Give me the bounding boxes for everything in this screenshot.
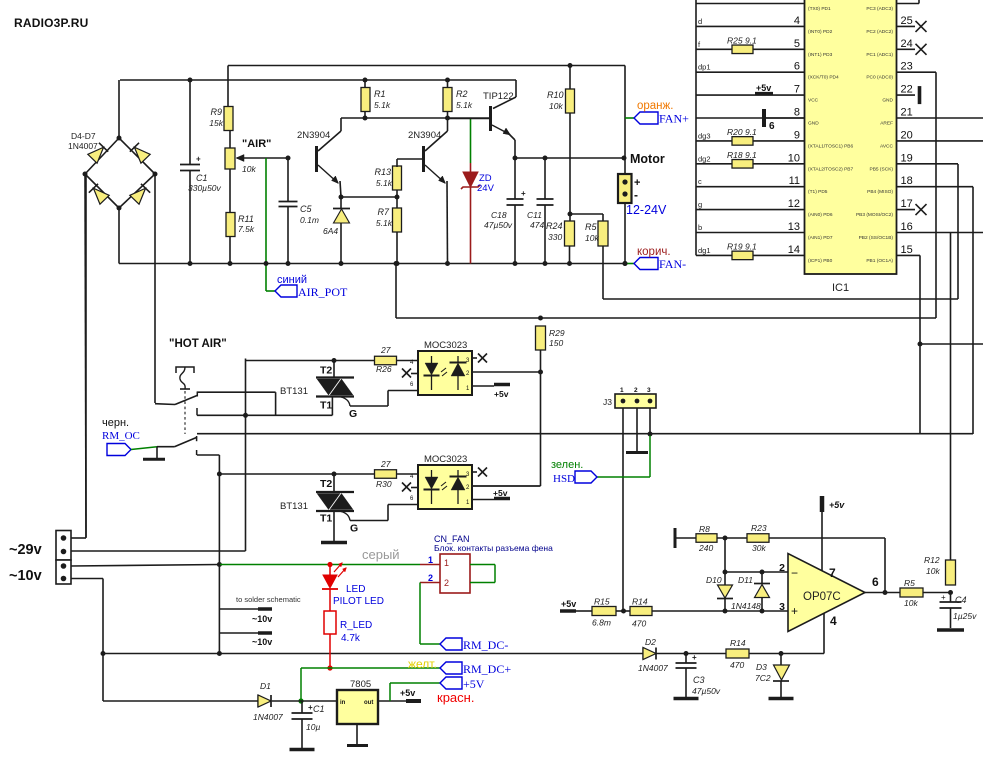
svg-text:серый: серый <box>362 547 400 562</box>
svg-text:470: 470 <box>632 619 646 629</box>
svg-text:6: 6 <box>872 575 879 589</box>
svg-text:+5V: +5V <box>463 677 485 691</box>
svg-text:7.5k: 7.5k <box>238 224 255 234</box>
svg-text:~10v: ~10v <box>9 568 42 584</box>
svg-text:(XTAL1/TOSC1) PB6: (XTAL1/TOSC1) PB6 <box>808 143 853 149</box>
svg-text:RADIO3P.RU: RADIO3P.RU <box>14 16 88 30</box>
svg-text:G: G <box>350 523 358 535</box>
svg-text:G: G <box>349 408 357 420</box>
svg-text:27: 27 <box>380 459 391 469</box>
svg-text:(INT1) PD3: (INT1) PD3 <box>808 52 833 58</box>
svg-text:0.1m: 0.1m <box>300 215 319 225</box>
svg-text:GND: GND <box>808 121 819 127</box>
svg-text:R19 9.1: R19 9.1 <box>727 241 757 251</box>
svg-text:out: out <box>364 700 373 706</box>
svg-text:(TX0) PD1: (TX0) PD1 <box>808 6 831 12</box>
svg-text:c: c <box>698 177 702 186</box>
svg-text:+5v: +5v <box>400 688 415 698</box>
svg-text:20: 20 <box>901 129 913 141</box>
svg-text:R14: R14 <box>632 597 648 607</box>
svg-text:C18: C18 <box>491 210 507 220</box>
svg-text:PB3 (MOSI/OC2): PB3 (MOSI/OC2) <box>856 212 893 218</box>
svg-text:желт.: желт. <box>408 657 437 671</box>
svg-text:C4: C4 <box>955 595 967 605</box>
svg-text:47µ50v: 47µ50v <box>692 686 721 696</box>
svg-text:R_LED: R_LED <box>340 620 372 631</box>
svg-text:14: 14 <box>788 244 800 256</box>
svg-text:19: 19 <box>901 152 913 164</box>
svg-text:6A4: 6A4 <box>323 226 338 236</box>
svg-text:dp1: dp1 <box>698 63 711 72</box>
svg-text:11: 11 <box>789 175 800 187</box>
svg-text:PB2 (SS/OC1B): PB2 (SS/OC1B) <box>859 235 894 241</box>
svg-text:MOC3023: MOC3023 <box>424 340 467 351</box>
svg-text:красн.: красн. <box>437 690 474 705</box>
svg-text:(AIN0) PD6: (AIN0) PD6 <box>808 212 833 218</box>
svg-text:PC0 (ADC0): PC0 (ADC0) <box>866 75 893 81</box>
svg-text:24V: 24V <box>477 183 495 194</box>
svg-text:C5: C5 <box>300 204 312 214</box>
svg-text:in: in <box>340 700 346 706</box>
svg-text:AREF: AREF <box>880 121 893 127</box>
svg-text:C3: C3 <box>693 675 705 685</box>
svg-text:21: 21 <box>901 107 913 119</box>
svg-text:T1: T1 <box>320 400 332 412</box>
svg-text:R9: R9 <box>210 107 222 117</box>
svg-text:AVCC: AVCC <box>880 143 894 149</box>
svg-text:25: 25 <box>901 15 913 27</box>
svg-text:330: 330 <box>548 232 562 242</box>
svg-text:10k: 10k <box>242 164 256 174</box>
svg-text:(XCK/T0) PD4: (XCK/T0) PD4 <box>808 75 839 81</box>
svg-text:240: 240 <box>698 543 713 553</box>
svg-text:OP07C: OP07C <box>803 591 841 603</box>
svg-text:1: 1 <box>620 387 624 394</box>
svg-text:Блок. контакты разъема фена: Блок. контакты разъема фена <box>434 543 553 553</box>
svg-text:7C2: 7C2 <box>755 673 771 683</box>
svg-text:dg2: dg2 <box>698 154 711 163</box>
svg-text:синий: синий <box>277 274 307 286</box>
svg-text:12-24V: 12-24V <box>626 203 667 217</box>
svg-text:Motor: Motor <box>630 152 665 166</box>
svg-text:+5v: +5v <box>494 389 509 399</box>
svg-text:зелен.: зелен. <box>551 459 583 471</box>
svg-text:PC1 (ADC1): PC1 (ADC1) <box>866 52 893 58</box>
svg-text:C1: C1 <box>196 173 208 183</box>
svg-text:+: + <box>692 653 697 662</box>
svg-text:(ICP1) PB0: (ICP1) PB0 <box>808 258 833 264</box>
svg-text:13: 13 <box>788 221 800 233</box>
svg-text:(T1) PD5: (T1) PD5 <box>808 189 828 195</box>
svg-text:15: 15 <box>901 244 913 256</box>
svg-text:to solder schematic: to solder schematic <box>236 595 301 604</box>
svg-text:1N4007: 1N4007 <box>638 663 668 673</box>
svg-text:PB5 (SCK): PB5 (SCK) <box>870 166 894 172</box>
svg-text:RM_OC: RM_OC <box>102 430 140 442</box>
svg-text:5.1k: 5.1k <box>374 100 391 110</box>
svg-text:IC1: IC1 <box>832 282 849 294</box>
svg-text:-: - <box>634 188 638 202</box>
svg-text:1µ25v: 1µ25v <box>953 611 977 621</box>
svg-text:24: 24 <box>901 38 913 50</box>
svg-text:7805: 7805 <box>350 679 371 690</box>
svg-text:T2: T2 <box>320 365 332 377</box>
svg-text:2N3904: 2N3904 <box>408 130 441 141</box>
svg-text:C1: C1 <box>313 704 325 714</box>
svg-text:6.8m: 6.8m <box>592 618 611 628</box>
svg-text:HSD: HSD <box>553 473 575 485</box>
svg-text:T2: T2 <box>320 478 332 490</box>
svg-text:3: 3 <box>779 601 785 613</box>
svg-text:b: b <box>698 223 702 232</box>
svg-text:4.7k: 4.7k <box>341 633 361 644</box>
svg-text:R14: R14 <box>730 638 746 648</box>
svg-text:10k: 10k <box>549 101 563 111</box>
svg-text:30k: 30k <box>752 543 766 553</box>
svg-text:D2: D2 <box>645 637 656 647</box>
svg-text:1N4007: 1N4007 <box>253 712 283 722</box>
svg-text:черн.: черн. <box>102 417 129 429</box>
svg-text:9: 9 <box>794 129 800 141</box>
svg-text:16: 16 <box>901 221 913 233</box>
svg-text:R18 9.1: R18 9.1 <box>727 150 757 160</box>
svg-text:+: + <box>941 593 946 602</box>
svg-text:BT131: BT131 <box>280 386 308 397</box>
svg-text:2N3904: 2N3904 <box>297 130 330 141</box>
svg-text:R8: R8 <box>699 524 710 534</box>
svg-text:1: 1 <box>428 555 433 565</box>
svg-text:~10v: ~10v <box>252 637 272 647</box>
svg-text:D4-D7: D4-D7 <box>71 131 96 141</box>
svg-text:R15: R15 <box>594 597 610 607</box>
svg-text:RM_DC+: RM_DC+ <box>463 662 511 676</box>
svg-text:5: 5 <box>794 38 800 50</box>
svg-text:R10: R10 <box>547 90 564 100</box>
svg-text:R5: R5 <box>585 222 597 232</box>
svg-text:5.1k: 5.1k <box>456 100 473 110</box>
svg-text:10k: 10k <box>904 598 918 608</box>
svg-text:474: 474 <box>530 220 544 230</box>
svg-text:R13: R13 <box>374 167 391 177</box>
svg-text:23: 23 <box>901 61 913 73</box>
svg-text:BT131: BT131 <box>280 501 308 512</box>
svg-text:10k: 10k <box>926 566 940 576</box>
svg-text:R7: R7 <box>377 207 389 217</box>
svg-text:+: + <box>791 604 798 618</box>
svg-text:PC2 (ADC2): PC2 (ADC2) <box>866 29 893 35</box>
svg-text:R20 9.1: R20 9.1 <box>727 127 757 137</box>
svg-text:47µ50v: 47µ50v <box>484 220 513 230</box>
svg-text:PILOT LED: PILOT LED <box>333 596 384 607</box>
svg-text:+5v: +5v <box>756 83 771 93</box>
svg-text:2: 2 <box>444 578 449 588</box>
svg-text:g: g <box>698 200 702 209</box>
svg-text:6: 6 <box>794 61 800 73</box>
svg-text:GND: GND <box>882 98 893 104</box>
svg-text:C11: C11 <box>527 210 542 220</box>
svg-text:330µ50v: 330µ50v <box>188 183 222 193</box>
svg-text:−: − <box>791 566 798 580</box>
svg-text:(XTAL2/TOSC2) PB7: (XTAL2/TOSC2) PB7 <box>808 166 853 172</box>
svg-text:1N4148: 1N4148 <box>731 601 761 611</box>
svg-text:R24: R24 <box>546 221 563 231</box>
svg-text:оранж.: оранж. <box>637 100 673 112</box>
svg-text:2: 2 <box>779 562 785 574</box>
svg-text:R2: R2 <box>456 89 468 99</box>
svg-text:(INT0) PD2: (INT0) PD2 <box>808 29 833 35</box>
svg-text:10: 10 <box>788 152 800 164</box>
svg-text:PB1 (OC1A): PB1 (OC1A) <box>866 258 893 264</box>
svg-text:15k: 15k <box>209 118 223 128</box>
svg-text:корич.: корич. <box>637 246 671 258</box>
svg-text:"AIR": "AIR" <box>242 138 271 150</box>
svg-text:R1: R1 <box>374 89 386 99</box>
svg-text:R11: R11 <box>238 214 254 224</box>
svg-text:470: 470 <box>730 660 744 670</box>
svg-text:3: 3 <box>647 387 651 394</box>
svg-text:VCC: VCC <box>808 98 819 104</box>
svg-text:J3: J3 <box>603 397 612 407</box>
svg-text:+5v: +5v <box>493 488 508 498</box>
svg-text:FAN-: FAN- <box>659 257 686 271</box>
svg-text:+: + <box>196 155 201 164</box>
svg-text:D10: D10 <box>706 575 722 585</box>
svg-text:10k: 10k <box>585 233 599 243</box>
svg-text:dg1: dg1 <box>698 246 711 255</box>
svg-text:1: 1 <box>444 558 449 568</box>
svg-text:D3: D3 <box>756 662 767 672</box>
svg-text:AIR_POT: AIR_POT <box>298 285 348 299</box>
svg-text:18: 18 <box>901 175 913 187</box>
svg-text:150: 150 <box>549 338 563 348</box>
svg-text:(AIN1) PD7: (AIN1) PD7 <box>808 235 833 241</box>
svg-text:dg3: dg3 <box>698 131 711 140</box>
svg-text:~29v: ~29v <box>9 542 42 558</box>
svg-text:RM_DC-: RM_DC- <box>463 638 508 652</box>
svg-text:~10v: ~10v <box>252 614 272 624</box>
svg-text:T1: T1 <box>320 513 332 525</box>
svg-text:PC3 (ADC3): PC3 (ADC3) <box>866 6 893 12</box>
svg-text:5.1k: 5.1k <box>376 178 393 188</box>
svg-text:2: 2 <box>634 387 638 394</box>
svg-text:FAN+: FAN+ <box>659 112 689 126</box>
svg-text:4: 4 <box>794 15 800 27</box>
svg-text:"HOT AIR": "HOT AIR" <box>169 338 227 350</box>
svg-text:1N4007: 1N4007 <box>68 141 98 151</box>
svg-text:D1: D1 <box>260 681 271 691</box>
svg-text:R5: R5 <box>904 578 915 588</box>
svg-text:5.1k: 5.1k <box>376 218 393 228</box>
svg-text:R29: R29 <box>549 328 565 338</box>
svg-text:R12: R12 <box>924 555 940 565</box>
svg-text:6: 6 <box>769 121 775 132</box>
svg-text:+5v: +5v <box>561 599 576 609</box>
svg-text:d: d <box>698 17 702 26</box>
svg-text:8: 8 <box>794 107 800 119</box>
svg-text:17: 17 <box>901 198 913 210</box>
svg-text:+: + <box>521 189 526 198</box>
svg-text:R25 9.1: R25 9.1 <box>727 35 757 45</box>
svg-text:+5v: +5v <box>829 500 845 510</box>
svg-text:7: 7 <box>794 84 800 96</box>
svg-text:2: 2 <box>428 573 433 583</box>
svg-text:R23: R23 <box>751 523 767 533</box>
svg-text:R26: R26 <box>376 364 392 374</box>
svg-text:12: 12 <box>788 198 800 210</box>
svg-text:4: 4 <box>830 614 837 628</box>
svg-text:LED: LED <box>346 584 365 595</box>
svg-text:10µ: 10µ <box>306 722 320 732</box>
svg-text:22: 22 <box>901 84 913 96</box>
svg-text:7: 7 <box>829 566 836 580</box>
svg-text:27: 27 <box>380 345 391 355</box>
svg-text:R30: R30 <box>376 479 392 489</box>
svg-text:PB4 (MISO): PB4 (MISO) <box>867 189 893 195</box>
svg-text:D11: D11 <box>738 575 753 585</box>
svg-text:MOC3023: MOC3023 <box>424 454 467 465</box>
